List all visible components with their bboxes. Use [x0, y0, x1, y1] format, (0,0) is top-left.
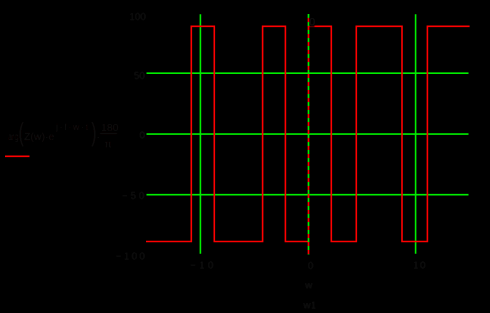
marker line y=-50 (green horizontal)	[147, 194, 469, 196]
marker line y=0 (green horizontal)	[147, 133, 469, 135]
svg-text:w1: w1	[302, 300, 316, 311]
svg-text:w: w	[304, 281, 313, 292]
svg-text:−10: −10	[190, 260, 217, 271]
svg-text:arg: arg	[8, 132, 19, 143]
svg-text:0: 0	[139, 130, 145, 141]
red phase trace (right of w=0)	[308, 26, 469, 241]
svg-text:·: ·	[97, 131, 101, 143]
svg-text:180: 180	[101, 122, 119, 134]
marker line x=0 (dashed red/green alternating)	[308, 14, 310, 255]
svg-text:−50: −50	[122, 191, 147, 202]
svg-text:−100: −100	[116, 251, 148, 262]
red phase trace (left of w=0)	[146, 26, 309, 241]
marker line y=50 (green horizontal)	[147, 72, 469, 74]
svg-text:0: 0	[308, 261, 314, 272]
svg-text:10: 10	[413, 260, 427, 271]
y-axis expression arg(Z(w)·e^(j·f·w·t))·180/pi	[8, 118, 119, 150]
svg-text:j·f·w·t: j·f·w·t	[55, 122, 90, 132]
marker line x=10 (green vertical)	[415, 14, 417, 254]
legend trace sample (red line)	[5, 155, 30, 157]
svg-text:π: π	[105, 138, 112, 150]
svg-text:0: 0	[309, 17, 315, 29]
marker line x=-10 (green vertical)	[199, 14, 201, 254]
svg-text:50: 50	[134, 71, 146, 82]
svg-text:100: 100	[129, 12, 146, 23]
marker value label 0 (top of dashed line)	[309, 17, 314, 27]
svg-text:Z(w)·e: Z(w)·e	[24, 131, 54, 143]
